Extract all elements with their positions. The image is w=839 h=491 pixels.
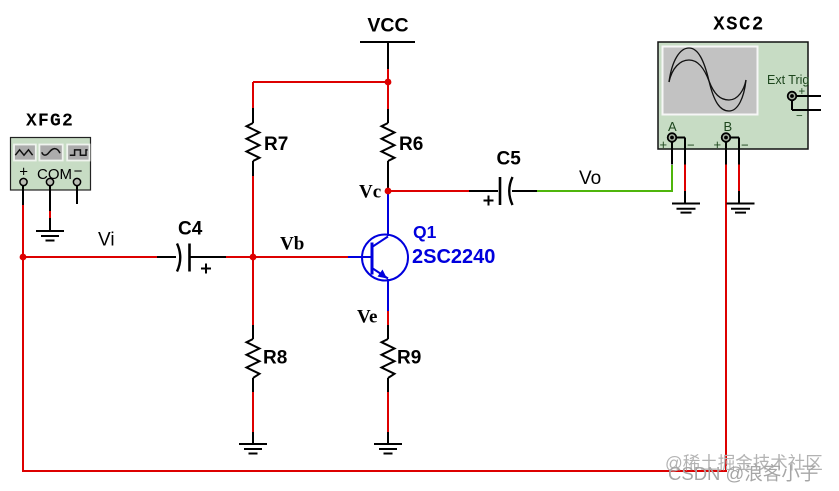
svg-text:XSC2: XSC2 (713, 14, 765, 36)
svg-text:+: + (799, 86, 806, 98)
svg-text:C4: C4 (178, 219, 203, 240)
svg-text:+: + (660, 137, 668, 152)
svg-text:C5: C5 (497, 149, 522, 170)
svg-text:B: B (724, 119, 733, 134)
svg-text:A: A (668, 119, 677, 134)
svg-text:R9: R9 (397, 348, 421, 369)
svg-text:Vb: Vb (280, 234, 304, 255)
svg-text:Vo: Vo (579, 168, 601, 189)
svg-text:XFG2: XFG2 (26, 112, 74, 132)
svg-text:+: + (714, 137, 722, 152)
svg-text:+: + (19, 164, 28, 181)
svg-text:2SC2240: 2SC2240 (412, 246, 495, 268)
svg-text:−: − (687, 138, 695, 153)
svg-text:R7: R7 (264, 134, 288, 155)
svg-text:CSDN @浪客小子: CSDN @浪客小子 (668, 463, 818, 484)
svg-text:Vi: Vi (98, 230, 115, 251)
svg-text:VCC: VCC (367, 15, 408, 37)
svg-text:−: − (796, 111, 803, 123)
svg-text:−: − (741, 138, 749, 153)
svg-text:COM: COM (37, 166, 72, 183)
svg-text:R8: R8 (263, 348, 287, 369)
svg-text:−: − (74, 163, 83, 180)
svg-text:Q1: Q1 (413, 222, 437, 242)
svg-text:Vc: Vc (359, 182, 381, 203)
svg-text:Ext Trig: Ext Trig (767, 73, 809, 87)
svg-text:Ve: Ve (357, 307, 377, 328)
svg-text:R6: R6 (399, 134, 423, 155)
